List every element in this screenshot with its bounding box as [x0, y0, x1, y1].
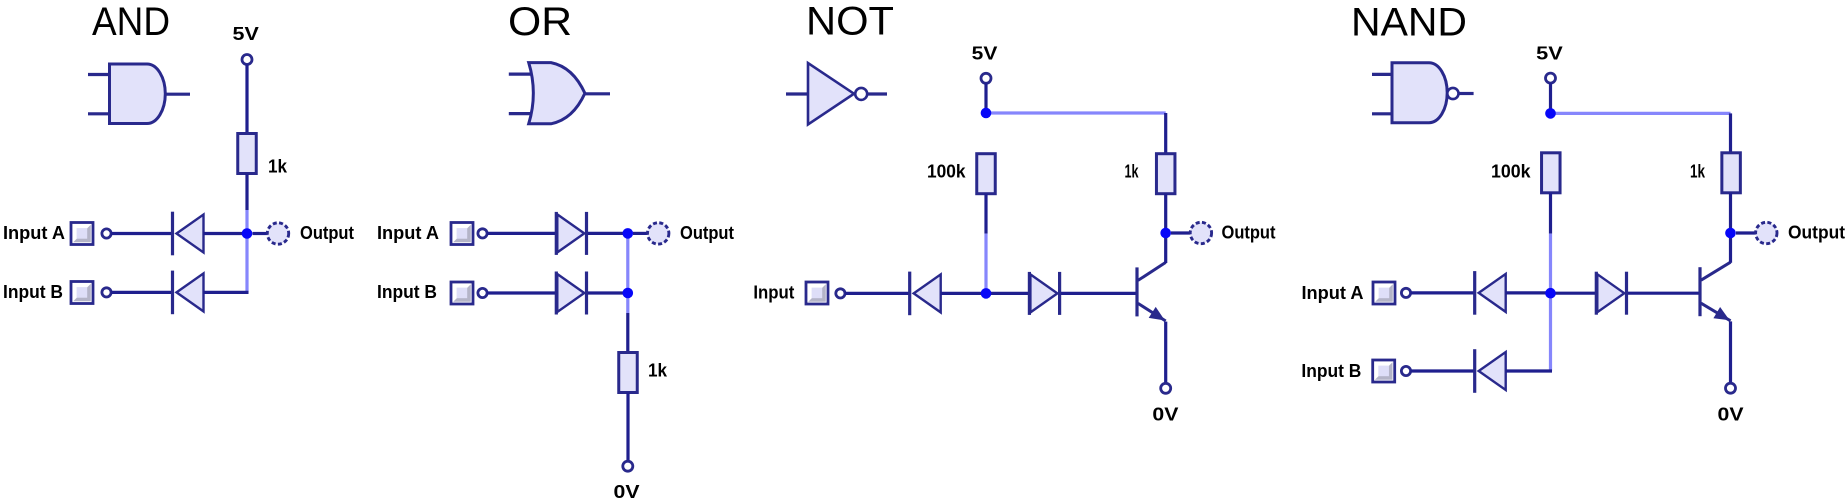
wire Input to diode (NOT) [845, 292, 909, 295]
wire resistor to 0V (OR) [626, 393, 629, 462]
wire node to diode D9 (NAND) [1555, 292, 1596, 295]
wire 100k to node (NOT) [984, 194, 987, 234]
wire diode D1 to node (AND) [204, 232, 244, 235]
wire rail down to 1k (NOT) [1164, 113, 1167, 154]
svg-text:NAND: NAND [1351, 1, 1467, 45]
label 100k (NOT) [927, 162, 966, 182]
wire 5V to node (NAND) [1549, 83, 1552, 110]
svg-text:OR: OR [508, 0, 572, 44]
wire collector to output node (NOT) [1164, 236, 1167, 263]
NOT gate symbol [786, 63, 887, 125]
wire supply rail highlighted (NOT) [986, 111, 1166, 114]
junction base node (NAND) [1545, 288, 1556, 299]
label Output (NOT) [1222, 223, 1276, 243]
svg-text:Output: Output [300, 223, 354, 243]
pin Input (NOT) [836, 289, 845, 298]
svg-text:Input A: Input A [3, 223, 65, 243]
pin Input B (AND) [102, 288, 111, 297]
wire emitter to 0V (NOT) [1164, 322, 1167, 383]
label 0V (NOT) [1152, 405, 1178, 425]
transistor Q2 (NAND) [1700, 262, 1731, 321]
label 1k (NOT) [1125, 162, 1140, 182]
wire diode D6 to base (NOT) [1061, 292, 1136, 295]
svg-text:5V: 5V [972, 44, 998, 64]
resistor R3 100k (NOT) [977, 154, 996, 194]
junction supply node (NOT) [981, 108, 992, 119]
AND gate symbol [88, 64, 190, 124]
wire 1k to output node (NAND) [1729, 193, 1732, 229]
wire Input A to diode (OR) [487, 232, 556, 235]
terminal 5V (NOT) [981, 73, 991, 83]
svg-text:Input B: Input B [377, 282, 437, 302]
wire node column to resistor (OR) [626, 313, 629, 353]
wire supply rail highlighted (NAND) [1551, 112, 1731, 115]
svg-text:100k: 100k [927, 162, 966, 182]
title OR [508, 0, 572, 44]
svg-text:5V: 5V [1536, 43, 1563, 63]
label 0V (NAND) [1718, 405, 1744, 425]
pin Input A (NAND) [1401, 288, 1410, 297]
svg-text:Input A: Input A [1302, 283, 1364, 303]
wire Input A to diode (NAND) [1411, 291, 1474, 294]
resistor R2 1k (OR) [619, 353, 638, 393]
label 5V (AND) [233, 24, 259, 44]
resistor R4 1k (NOT) [1156, 154, 1175, 194]
wire diode D8 to node column (NAND) [1506, 369, 1552, 372]
label 5V (NOT) [972, 44, 998, 64]
label Input A (OR) [377, 223, 439, 243]
wire 1k to output node (NOT) [1164, 194, 1167, 229]
diode D7 (NAND Input A) [1475, 271, 1506, 315]
svg-text:Input B: Input B [3, 282, 63, 302]
label Input B (OR) [377, 282, 437, 302]
terminal 0V (NAND) [1726, 383, 1736, 393]
switch Input B (AND) [71, 282, 93, 304]
label 100k (NAND) [1491, 162, 1531, 182]
terminal 0V (NOT) [1161, 383, 1171, 393]
label Output (AND) [300, 223, 354, 243]
label Input A (AND) [3, 223, 65, 243]
title NOT [806, 0, 894, 44]
pin Input A (AND) [102, 229, 111, 238]
svg-text:1k: 1k [1125, 162, 1140, 182]
switch Input (NOT) [806, 282, 828, 304]
pin Input A (OR) [478, 229, 487, 238]
wire 5V to resistor (AND) [245, 65, 248, 134]
svg-text:1k: 1k [648, 361, 668, 381]
svg-text:0V: 0V [1718, 405, 1744, 425]
OR gate symbol [509, 63, 610, 124]
output probe (OR) [648, 223, 669, 244]
wire 100k to node (NAND) [1549, 193, 1552, 234]
svg-text:5V: 5V [233, 24, 259, 44]
output probe (NAND) [1756, 222, 1777, 243]
wire diode D2 to node column (AND) [204, 291, 249, 294]
svg-text:1k: 1k [268, 157, 288, 177]
pin Input B (OR) [478, 288, 487, 297]
label 5V (NAND) [1536, 43, 1563, 63]
label Input (NOT) [753, 283, 794, 303]
junction node B (OR) [623, 288, 634, 299]
svg-text:Input B: Input B [1301, 361, 1361, 381]
label Input B (AND) [3, 282, 63, 302]
wire Input B to diode (NAND) [1411, 369, 1474, 372]
wire diode D3 to node (OR) [588, 232, 623, 235]
terminal 0V (OR) [623, 461, 633, 471]
terminal 5V (NAND) [1546, 73, 1556, 83]
svg-text:100k: 100k [1491, 162, 1531, 182]
label Output (NAND) [1788, 223, 1845, 243]
svg-text:Output: Output [680, 223, 734, 243]
output probe (NOT) [1190, 222, 1211, 243]
label 1k (AND) [268, 157, 288, 177]
junction output node (NAND) [1725, 228, 1736, 239]
diode D6 (NOT) [1029, 272, 1059, 315]
diode D2 (AND Input B) [173, 271, 204, 315]
switch Input A (NAND) [1373, 282, 1395, 304]
svg-text:Output: Output [1788, 223, 1845, 243]
wire node to output (AND) [253, 232, 268, 235]
junction base node (NOT) [981, 288, 992, 299]
junction node (AND) [242, 228, 253, 239]
svg-text:Output: Output [1222, 223, 1276, 243]
wire emitter to 0V (NAND) [1729, 321, 1732, 383]
wire output node to probe (NAND) [1736, 231, 1756, 234]
diode D1 (AND Input A) [173, 212, 204, 256]
svg-text:0V: 0V [614, 482, 640, 502]
wire rail down to 1k (NAND) [1729, 113, 1732, 152]
resistor R1 1k (AND) [238, 134, 257, 174]
switch Input A (OR) [451, 223, 473, 245]
title AND [92, 0, 170, 44]
label 1k (OR) [648, 361, 668, 381]
label Output (OR) [680, 223, 734, 243]
wire Input A to diode (AND) [111, 232, 172, 235]
resistor R5 100k (NAND) [1542, 153, 1561, 193]
wire node to output (OR) [633, 232, 648, 235]
switch Input A (AND) [71, 223, 93, 245]
diode D4 (OR Input B) [556, 272, 586, 315]
junction output node (NOT) [1160, 228, 1171, 239]
wire diode D9 to base (NAND) [1628, 292, 1699, 295]
title NAND [1351, 1, 1467, 45]
wire 100k node highlighted (NOT) [984, 234, 987, 294]
wire output node to probe (NOT) [1171, 231, 1190, 234]
wire node to diode D6 (NOT) [991, 292, 1029, 295]
wire diode D5 to node (NOT) [941, 292, 982, 295]
label Input B (NAND) [1301, 361, 1361, 381]
resistor R6 1k (NAND) [1722, 153, 1741, 193]
diode D8 (NAND Input B) [1475, 349, 1506, 393]
wire diode D7 to node (NAND) [1506, 291, 1546, 294]
svg-text:0V: 0V [1152, 405, 1178, 425]
wire node column highlighted (NAND) [1549, 234, 1552, 371]
terminal 5V (AND) [242, 55, 252, 65]
label Input A (NAND) [1302, 283, 1364, 303]
wire node column highlighted (AND) [245, 210, 248, 292]
pin Input B (NAND) [1401, 366, 1410, 375]
svg-text:Input A: Input A [377, 223, 439, 243]
label 0V (OR) [614, 482, 640, 502]
diode D3 (OR Input A) [556, 212, 586, 255]
transistor Q1 (NOT) [1137, 262, 1166, 321]
switch Input B (NAND) [1373, 360, 1395, 382]
junction node A (OR) [623, 228, 634, 239]
NAND gate symbol [1372, 63, 1474, 123]
junction supply node (NAND) [1545, 108, 1556, 119]
output probe (AND) [267, 223, 288, 244]
wire diode D4 to node (OR) [588, 291, 623, 294]
wire Input B to diode (OR) [487, 291, 556, 294]
svg-text:NOT: NOT [806, 0, 894, 44]
wire resistor to node (AND) [245, 174, 248, 211]
wire 5V to node (NOT) [984, 83, 987, 110]
wire Input B to diode (AND) [111, 291, 172, 294]
switch Input B (OR) [451, 282, 473, 304]
label 1k (NAND) [1690, 162, 1706, 182]
svg-text:AND: AND [92, 0, 170, 44]
diode D9 (NAND) [1596, 272, 1626, 315]
wire node column highlighted (OR) [626, 233, 629, 313]
diode D5 (NOT input) [910, 272, 941, 316]
svg-text:1k: 1k [1690, 162, 1706, 182]
svg-text:Input: Input [753, 283, 794, 303]
wire collector to output node (NAND) [1729, 236, 1732, 263]
